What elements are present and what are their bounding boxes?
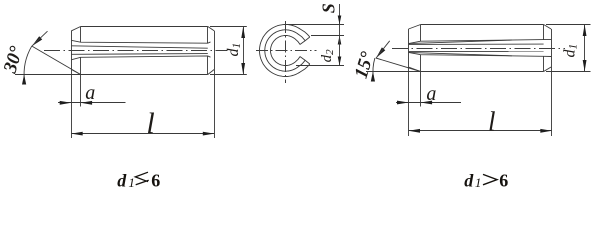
15 deg bottom arrowhead	[371, 72, 375, 82]
left pin right chamfer boundary upper	[207, 27, 209, 44]
right l extension line 1	[408, 107, 410, 137]
left pin chamfer diagonal top-left	[71, 27, 80, 31]
15 deg angle line	[376, 58, 421, 72]
30 deg arrow tail	[32, 31, 48, 46]
svg-text:a: a	[85, 82, 95, 104]
svg-text:l: l	[146, 107, 154, 140]
left pin left chamfer boundary lower	[80, 57, 82, 74]
ring inner arc	[271, 36, 300, 66]
15 deg arrow tail	[376, 41, 390, 58]
svg-text:S: S	[319, 3, 339, 13]
right l dimension line	[409, 130, 552, 132]
right pin slot line B upper-inner (slanted)	[409, 40, 513, 44]
ring vertical centerline	[285, 21, 287, 83]
30 deg dimension arc	[24, 46, 32, 81]
left pin left end face	[71, 31, 73, 70]
left d1 dimension line	[243, 27, 245, 75]
svg-text:a: a	[426, 83, 436, 105]
left a extension line 2	[80, 74, 82, 106]
right pin right chamfer boundary upper	[543, 25, 545, 40]
left pin chamfer diagonal top-right	[208, 27, 215, 31]
svg-text:1: 1	[475, 175, 482, 190]
left pin slot upper-inner line (slanted)	[71, 46, 208, 48]
S arrow down	[338, 16, 342, 25]
15 deg reference line	[366, 71, 421, 73]
left pin right end face	[214, 31, 216, 70]
right l extension line 2	[551, 67, 553, 136]
left d1 bottom extension line	[210, 74, 247, 76]
left l left arrow	[71, 132, 83, 136]
right pin slot line A upper-outer	[409, 39, 552, 43]
left a dimension line	[58, 102, 126, 104]
S dimension line	[339, 4, 341, 25]
svg-text:6: 6	[499, 171, 508, 191]
d2 lower extension line (inner circle bottom tangent)	[296, 65, 344, 67]
right a left arrow	[397, 101, 409, 105]
right d1 top arrow	[583, 25, 587, 37]
right a extension line 1	[408, 67, 410, 107]
left l right arrow	[203, 132, 215, 136]
right pin chamfer diagonal top-right	[544, 25, 552, 30]
right pin chamfer diagonal bottom-left	[409, 67, 421, 72]
left l extension line 2	[214, 69, 216, 138]
left pin center axis	[44, 50, 228, 52]
right d1 bottom extension line	[546, 71, 591, 73]
svg-text:d: d	[117, 171, 127, 191]
left a right arrow	[81, 101, 93, 105]
right l right arrow	[540, 129, 552, 133]
30 deg top arrowhead	[32, 36, 42, 46]
ring lower slot cap	[300, 57, 310, 65]
15 deg dimension arc	[373, 58, 375, 78]
right pin slot line Bp lower-inner (slanted)	[409, 52, 513, 55]
left d1 bottom arrow	[241, 63, 245, 75]
15 deg top arrowhead	[376, 47, 385, 58]
right pin right end face	[551, 29, 553, 67]
right l left arrow	[409, 129, 421, 133]
left pin slot lower-outer line	[71, 56, 210, 60]
right pin right chamfer boundary lower	[543, 56, 545, 71]
right pin slot line Ap lower-outer	[409, 52, 552, 56]
S lower / d2 upper extension line (inner circle top tangent)	[311, 35, 344, 37]
ring outer arc	[260, 25, 310, 77]
svg-text:l: l	[488, 106, 496, 136]
right a dimension line	[396, 102, 461, 104]
left a left arrow	[60, 101, 71, 105]
left pin bottom edge	[81, 74, 208, 76]
d2 bottom arrow (down)	[338, 57, 342, 66]
right pin left chamfer boundary upper	[420, 25, 422, 42]
left a extension line 1	[71, 69, 73, 106]
left pin chamfer diagonal bottom-right	[208, 69, 215, 74]
right d1 dimension line	[584, 25, 586, 72]
ring chamfer arc	[265, 30, 305, 71]
right pin slot upper horizontal	[409, 43, 544, 45]
right pin bottom edge	[421, 71, 544, 73]
30 deg reference line	[15, 74, 81, 76]
right pin top edge	[421, 24, 544, 26]
caption right: greater-than symbol	[483, 174, 497, 184]
S upper extension line (outer circle top tangent)	[286, 24, 344, 26]
svg-text:6: 6	[151, 171, 160, 191]
left d1 top arrow	[241, 27, 245, 39]
right pin chamfer diagonal top-left	[409, 25, 421, 30]
shared arrow up at inner top	[338, 36, 342, 45]
left l extension line 1	[71, 107, 73, 139]
right d1 bottom arrow	[583, 60, 587, 72]
right pin slot lower horizontal	[409, 50, 544, 52]
right pin chamfer diagonal bottom-right	[544, 67, 552, 72]
svg-text:1: 1	[128, 175, 135, 190]
right a extension line 2	[420, 72, 422, 107]
svg-text:d: d	[464, 171, 474, 191]
30 deg angle line	[32, 46, 81, 75]
30 deg bottom arrowhead	[22, 75, 26, 85]
left pin left chamfer boundary upper	[80, 27, 82, 43]
ring upper slot cap	[300, 37, 310, 45]
left pin right chamfer boundary lower	[207, 56, 209, 75]
right a right arrow	[421, 101, 433, 105]
right pin left chamfer boundary lower	[420, 55, 422, 72]
left l dimension line	[71, 133, 214, 135]
ring horizontal centerline	[256, 50, 317, 52]
right d1 top extension line	[546, 24, 591, 26]
left pin chamfer diagonal bottom-left	[71, 69, 80, 74]
right pin left end face	[408, 29, 410, 67]
d2 dimension line	[339, 25, 341, 66]
left pin slot lower-inner line	[71, 53, 208, 56]
left pin top edge	[81, 26, 208, 28]
left d1 top extension line	[210, 26, 247, 28]
caption left: less-equal symbol	[135, 172, 148, 185]
left pin slot upper-outer line	[71, 40, 210, 43]
right pin center axis	[392, 48, 565, 50]
